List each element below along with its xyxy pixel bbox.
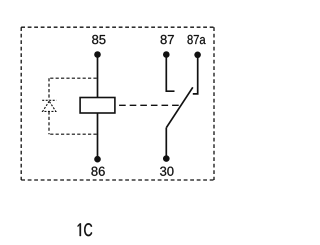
- label terminal 87: [161, 35, 174, 44]
- label terminal 30: [160, 167, 173, 176]
- terminal pin 85 (dot): [94, 51, 101, 58]
- actuator link (dashed): [119, 104, 179, 106]
- wire coil to 86: [97, 113, 99, 159]
- terminal pin 87a (dot): [194, 52, 201, 59]
- suppression-diode branch box, bottom run (dashed): [48, 133, 96, 135]
- label terminal 87a: [187, 35, 205, 44]
- terminal pin 87 (dot): [163, 51, 170, 58]
- wire 87a to NC contact: [193, 55, 198, 94]
- terminal pin 30 (dot): [163, 155, 170, 162]
- relay case outline top edge (dashed): [21, 26, 214, 28]
- wire 30 riser: [165, 128, 167, 159]
- switch blade (common, resting on 87a): [166, 87, 193, 127]
- diode D1 triangle: [43, 101, 56, 111]
- label relay type 1C: [78, 223, 92, 236]
- suppression-diode branch box, lower-left run (dashed): [48, 111, 50, 134]
- suppression-diode branch box, upper-left run (dashed): [48, 78, 50, 100]
- relay case outline left edge (dashed): [20, 27, 22, 180]
- terminal pin 86 (dot): [94, 156, 101, 163]
- coil K1: [80, 98, 115, 114]
- label terminal 85: [92, 35, 105, 44]
- relay case outline bottom edge (dashed): [21, 179, 214, 181]
- diode D1 (dashed, optional) cathode bar: [42, 99, 56, 101]
- label terminal 86: [91, 167, 104, 176]
- wire 85 to coil: [97, 55, 99, 98]
- relay case outline right edge (dashed): [213, 27, 215, 180]
- suppression-diode branch box, top run (dashed): [48, 77, 96, 79]
- wire 87 to NO contact: [166, 55, 174, 92]
